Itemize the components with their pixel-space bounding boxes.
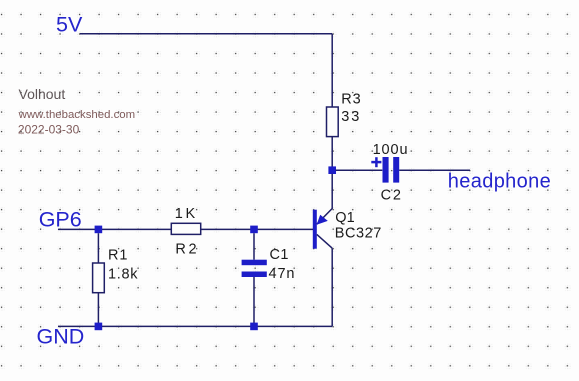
wire node A down to Q1 emitter — [317, 174, 332, 224]
wire 5V down to R3 — [331, 34, 333, 108]
svg-text:BC327: BC327 — [335, 226, 382, 242]
svg-text:C1: C1 — [270, 247, 289, 263]
svg-text:headphone: headphone — [448, 171, 551, 193]
node E junction GND-C1 — [250, 323, 258, 331]
wire R2 to node C — [201, 228, 313, 230]
transistor Q1 base bar — [313, 210, 317, 249]
wire GND rail — [58, 325, 332, 327]
svg-text:R2: R2 — [175, 242, 199, 258]
wire node B down to R1 — [97, 233, 99, 263]
transistor Q1 emitter arrow — [317, 215, 328, 225]
resistor R3 — [327, 107, 339, 137]
wire C2 to headphone — [399, 169, 470, 171]
svg-text:100u: 100u — [373, 142, 409, 158]
node C junction — [250, 226, 258, 234]
wire 5V rail horizontal — [80, 33, 332, 35]
svg-text:Q1: Q1 — [335, 210, 354, 226]
svg-text:Volhout: Volhout — [19, 86, 66, 102]
wire C1 to GND rail — [253, 277, 255, 326]
node D junction GND-R1 — [95, 323, 103, 331]
svg-text:2022-03-30: 2022-03-30 — [18, 123, 80, 137]
wire R1 to GND rail — [97, 293, 99, 327]
capacitor C1 — [242, 260, 267, 277]
resistor R1 — [93, 263, 105, 293]
svg-text:1.8k: 1.8k — [108, 267, 138, 283]
transistor Q1 collector diagonal — [317, 234, 332, 248]
wire Q1 collector down — [331, 248, 333, 326]
svg-text:GND: GND — [37, 325, 85, 349]
polarity plus C2 — [371, 157, 381, 167]
svg-text:5V: 5V — [56, 13, 83, 37]
wire node A to C2 — [336, 169, 383, 171]
svg-text:33: 33 — [341, 109, 361, 125]
node A junction — [328, 166, 336, 174]
svg-text:GP6: GP6 — [39, 208, 82, 232]
svg-text:1K: 1K — [175, 206, 198, 222]
svg-text:R3: R3 — [341, 92, 361, 108]
node B junction — [95, 226, 103, 234]
resistor R2 — [171, 223, 200, 234]
wire R3 to node A — [331, 137, 333, 171]
svg-text:C2: C2 — [381, 188, 403, 204]
svg-text:R1: R1 — [108, 248, 128, 264]
svg-text:47n: 47n — [269, 266, 296, 282]
wire node C down to C1 — [253, 233, 255, 260]
capacitor C2 — [383, 157, 400, 183]
wire GP6 to R2 — [58, 228, 171, 230]
svg-text:www.thebackshed.com: www.thebackshed.com — [18, 109, 136, 121]
